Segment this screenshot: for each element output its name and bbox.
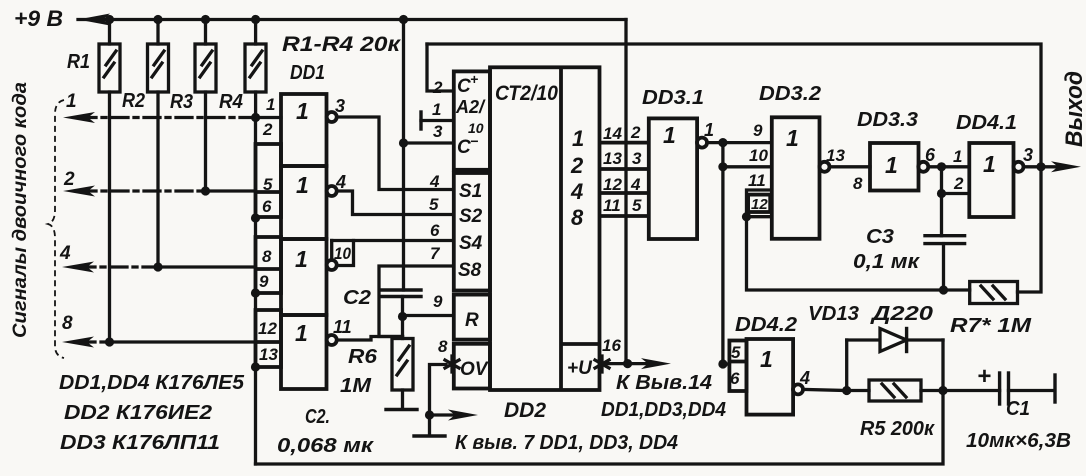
wire C2 bottom to pin 9 node xyxy=(401,297,404,339)
wire rail drop to DD2 C- and C2 xyxy=(402,20,405,291)
svg-text:14: 14 xyxy=(603,124,622,143)
wire R7 right lead up to output xyxy=(1018,167,1042,292)
svg-text:Сигналы двоичного кода: Сигналы двоичного кода xyxy=(9,82,31,338)
svg-text:R1: R1 xyxy=(67,51,90,73)
gate DD4.1 xyxy=(953,112,1033,217)
svg-text:10мк×6,3В: 10мк×6,3В xyxy=(966,430,1071,452)
arrow output xyxy=(1041,161,1081,172)
gate DD4.2 xyxy=(723,314,810,415)
wire pin 16 supply xyxy=(606,358,671,369)
resistor R1 xyxy=(67,20,120,93)
junction DD4.2 inputs xyxy=(718,359,727,368)
DD2 output grid rows xyxy=(600,123,649,216)
svg-text:3: 3 xyxy=(632,149,642,168)
junction pin8 node xyxy=(425,410,434,419)
svg-text:К выв. 7 DD1, DD3, DD4: К выв. 7 DD1, DD3, DD4 xyxy=(455,432,678,454)
svg-text:9: 9 xyxy=(753,121,763,140)
svg-text:DD4.2: DD4.2 xyxy=(735,314,797,336)
wire to C1 xyxy=(943,389,1000,392)
wire DD2 S8 to R6 top xyxy=(379,266,454,337)
capacitor C1 polarized xyxy=(966,363,1071,452)
counter DD2 body xyxy=(490,67,600,422)
wire feedback top (output to C+) xyxy=(427,44,1041,167)
svg-text:4: 4 xyxy=(335,172,346,192)
svg-text:2: 2 xyxy=(570,153,584,178)
svg-text:3: 3 xyxy=(433,122,443,141)
svg-text:7: 7 xyxy=(430,244,441,263)
pin 1 tie-off tick xyxy=(421,112,454,129)
wire row 1 (input 1) xyxy=(63,112,281,123)
svg-text:13: 13 xyxy=(603,149,622,168)
svg-text:9: 9 xyxy=(259,272,269,291)
svg-text:2: 2 xyxy=(953,174,964,193)
svg-text:S1: S1 xyxy=(459,181,482,202)
svg-text:R3: R3 xyxy=(170,91,193,113)
wire down to pin2/C3 xyxy=(940,167,943,236)
wire DD3.1 out to DD3.2 pin 9 xyxy=(707,141,772,144)
svg-text:12: 12 xyxy=(603,175,622,194)
wire C3 bottom lead xyxy=(942,244,945,290)
svg-text:R: R xyxy=(465,310,479,331)
svg-text:DD4.1: DD4.1 xyxy=(956,112,1017,134)
svg-text:1: 1 xyxy=(66,91,77,112)
svg-text:С3: С3 xyxy=(866,226,894,248)
svg-text:5: 5 xyxy=(429,195,439,214)
svg-text:1: 1 xyxy=(572,126,584,151)
svg-text:Выход: Выход xyxy=(1061,71,1086,147)
brace for inputs xyxy=(48,100,64,358)
svg-text:СТ2/10: СТ2/10 xyxy=(495,82,558,105)
junction C3 bottom xyxy=(939,285,948,294)
junction C- node xyxy=(399,138,408,147)
svg-text:13: 13 xyxy=(826,146,845,165)
wire DD4.1 out to output node xyxy=(1024,165,1042,168)
svg-text:+: + xyxy=(470,71,478,87)
svg-text:4: 4 xyxy=(630,175,641,194)
svg-text:1: 1 xyxy=(704,120,714,140)
wire to DD3.2 pin 10 xyxy=(723,165,772,168)
svg-text:DD1: DD1 xyxy=(290,62,325,84)
wire R4 lead down to row 1 xyxy=(254,92,257,118)
svg-text:16: 16 xyxy=(602,336,621,355)
wire pin 8 to common xyxy=(430,365,447,434)
svg-text:5: 5 xyxy=(263,175,273,194)
svg-text:С2.: С2. xyxy=(305,406,330,428)
svg-text:DD2 К176ИЕ2: DD2 К176ИЕ2 xyxy=(64,402,212,424)
junction bus cell 12/13 xyxy=(251,362,260,371)
svg-text:6: 6 xyxy=(430,221,440,240)
wire pin 12 stub xyxy=(747,215,772,218)
svg-text:4: 4 xyxy=(429,172,440,191)
junction rail-R1 xyxy=(105,15,114,24)
svg-text:S8: S8 xyxy=(458,260,482,281)
wire row 8 (input 8) xyxy=(62,337,256,348)
svg-text:К Выв.14: К Выв.14 xyxy=(616,372,712,394)
svg-text:+: + xyxy=(977,363,991,390)
svg-text:+U: +U xyxy=(567,358,593,379)
asterisk pin 8 xyxy=(445,356,459,372)
gate DD1.3 xyxy=(256,237,337,315)
svg-text:DD3.1: DD3.1 xyxy=(642,87,704,109)
gate DD1.1 xyxy=(262,94,345,166)
svg-text:8: 8 xyxy=(438,337,448,356)
svg-text:DD3 К176ЛП11: DD3 К176ЛП11 xyxy=(60,432,220,454)
svg-text:11: 11 xyxy=(333,317,352,337)
svg-text:Д220: Д220 xyxy=(869,303,933,325)
resistor R4 xyxy=(219,20,266,114)
svg-text:2: 2 xyxy=(63,169,75,190)
svg-text:0,1 мк: 0,1 мк xyxy=(853,251,920,273)
svg-text:A2/: A2/ xyxy=(455,97,486,117)
svg-text:4: 4 xyxy=(570,179,583,204)
svg-text:1: 1 xyxy=(663,122,676,148)
svg-text:5: 5 xyxy=(632,196,642,215)
svg-text:DD3.2: DD3.2 xyxy=(759,83,821,105)
svg-text:1: 1 xyxy=(983,151,996,177)
wire diode right down xyxy=(941,340,944,391)
wire feedback down to DD4.2 xyxy=(721,143,724,364)
resistor R5 xyxy=(847,380,943,440)
svg-text:1: 1 xyxy=(786,125,799,151)
gate DD1.4 xyxy=(256,310,352,389)
svg-text:2: 2 xyxy=(432,78,443,97)
svg-text:8: 8 xyxy=(62,313,73,334)
svg-text:0,068 мк: 0,068 мк xyxy=(277,435,374,457)
svg-text:+9 В: +9 В xyxy=(14,6,63,31)
svg-text:S4: S4 xyxy=(459,233,483,254)
svg-text:9: 9 xyxy=(433,292,443,311)
svg-text:3: 3 xyxy=(1023,145,1033,165)
svg-text:10: 10 xyxy=(749,146,768,165)
svg-text:R1-R4 20к: R1-R4 20к xyxy=(282,33,402,56)
wire C1 to terminal xyxy=(1009,389,1054,392)
junction DD3.1 out xyxy=(718,138,727,147)
svg-text:S2: S2 xyxy=(459,206,483,227)
svg-text:6: 6 xyxy=(730,369,740,388)
svg-text:R5 200к: R5 200к xyxy=(860,418,935,440)
resistor R7 xyxy=(950,282,1033,338)
ground common xyxy=(414,434,445,437)
svg-text:8: 8 xyxy=(262,247,272,266)
svg-text:13: 13 xyxy=(259,345,278,364)
svg-text:OV: OV xyxy=(460,359,489,380)
wire row 2 (input 2) xyxy=(63,186,256,197)
junction rail to DD2 C- drop xyxy=(399,15,408,24)
DD2 pin cells column xyxy=(454,71,490,389)
svg-text:4: 4 xyxy=(59,243,71,264)
svg-text:11: 11 xyxy=(748,171,766,190)
wire R1 lead down to row 8 xyxy=(108,92,111,342)
svg-text:DD3.3: DD3.3 xyxy=(857,109,918,131)
svg-text:C: C xyxy=(457,137,471,158)
svg-text:5: 5 xyxy=(731,343,741,362)
capacitor C2 xyxy=(343,287,421,309)
wire to pin 3 C- xyxy=(404,141,454,144)
svg-text:DD2: DD2 xyxy=(504,399,546,422)
svg-text:C: C xyxy=(457,76,471,97)
junction output node xyxy=(1036,162,1045,171)
wire pin 11 to pin 12 node xyxy=(747,190,772,217)
svg-text:3: 3 xyxy=(335,96,345,116)
wire +9V drop to pin 16 xyxy=(624,20,627,364)
svg-text:1: 1 xyxy=(296,172,309,198)
svg-text:R7* 1М: R7* 1М xyxy=(950,315,1033,337)
gate DD3.1 xyxy=(642,87,714,239)
svg-text:2: 2 xyxy=(630,123,641,142)
svg-text:R6: R6 xyxy=(348,346,378,368)
wire diode branch left xyxy=(845,340,848,391)
gate DD3.3 xyxy=(857,109,936,191)
junction DD3.3 out xyxy=(937,162,946,171)
wire DD1.1 out to DD2 S1 xyxy=(337,117,454,190)
wire DD3.2 out to DD3.3 xyxy=(830,165,871,168)
resistor R2 xyxy=(122,20,169,113)
svg-text:1: 1 xyxy=(953,147,962,166)
wire +9V top rail xyxy=(78,18,626,21)
gate DD3.2 xyxy=(748,83,863,239)
svg-text:12: 12 xyxy=(751,196,768,213)
wire input bus vertical xyxy=(254,118,257,465)
wire pin12 node to C3/R7 node xyxy=(747,217,970,290)
svg-text:С2: С2 xyxy=(343,287,371,309)
svg-text:−: − xyxy=(470,133,478,149)
junction R5 left xyxy=(842,386,851,395)
wire DD1.3 out to DD2 S4 (boxed pin 10) xyxy=(332,241,454,266)
svg-text:1: 1 xyxy=(885,152,898,178)
junction pin 10 xyxy=(718,162,727,171)
wire row 4 (input 4) xyxy=(62,262,256,273)
svg-text:12: 12 xyxy=(258,319,277,338)
wire DD1.4 out to R6 top xyxy=(337,337,403,341)
svg-text:1М: 1М xyxy=(340,375,372,397)
svg-text:DD1,DD3,DD4: DD1,DD3,DD4 xyxy=(601,399,726,421)
svg-text:4: 4 xyxy=(799,368,810,388)
svg-text:1: 1 xyxy=(295,320,308,346)
svg-text:DD1,DD4 К176ЛЕ5: DD1,DD4 К176ЛЕ5 xyxy=(59,372,245,394)
wire DD4.2 out xyxy=(803,389,847,390)
wire DD3.3 out to DD4.1 pin 1 xyxy=(928,165,969,168)
svg-text:1: 1 xyxy=(296,98,309,124)
ground R6 xyxy=(386,390,417,410)
svg-text:6: 6 xyxy=(925,145,936,165)
svg-text:8: 8 xyxy=(571,205,584,230)
svg-text:10: 10 xyxy=(334,244,351,263)
svg-text:VD13: VD13 xyxy=(808,303,859,325)
junction bus cell 8/9 xyxy=(251,288,260,297)
wire bottom rail xyxy=(256,391,944,465)
wire to DD2 pin 9 R xyxy=(403,314,454,317)
svg-text:1: 1 xyxy=(295,246,308,272)
resistor R6 xyxy=(340,339,413,398)
junction bus cell 5/6 xyxy=(251,213,260,222)
gate DD1.2 xyxy=(256,144,347,239)
asterisk pin 16 xyxy=(595,356,609,372)
junction R5 right xyxy=(938,386,947,395)
svg-text:6: 6 xyxy=(262,197,272,216)
wire diode top xyxy=(847,338,943,341)
junction pin 12 xyxy=(742,212,751,221)
svg-text:2: 2 xyxy=(262,120,273,139)
diode VD13 xyxy=(808,303,933,352)
arrow to pin 7 supply xyxy=(430,410,479,421)
svg-text:1: 1 xyxy=(432,100,441,119)
junction rail-R3 xyxy=(201,15,210,24)
wire pin 2 C+ from feedback xyxy=(427,44,454,91)
terminal bar xyxy=(1053,375,1056,402)
svg-text:11: 11 xyxy=(603,196,621,215)
wire DD1.2 out to DD2 S2 xyxy=(337,191,454,215)
junction pin 2 node xyxy=(937,189,946,198)
capacitor C3 xyxy=(853,226,965,273)
resistor R3 xyxy=(170,20,216,114)
wire R3 lead down to row 2 xyxy=(204,92,207,191)
wire to DD4.1 pin 2 xyxy=(942,192,970,195)
svg-text:R2: R2 xyxy=(122,90,145,112)
svg-text:8: 8 xyxy=(853,174,863,193)
junction rail-R4 xyxy=(251,15,260,24)
svg-text:R4: R4 xyxy=(219,91,243,113)
wire R2 lead down to row 4 xyxy=(156,92,159,267)
svg-text:1: 1 xyxy=(266,95,275,114)
junction pin 9 node xyxy=(398,312,407,321)
svg-text:С1: С1 xyxy=(1006,398,1030,420)
svg-text:1: 1 xyxy=(760,346,773,372)
junction rail-R2 xyxy=(153,15,162,24)
